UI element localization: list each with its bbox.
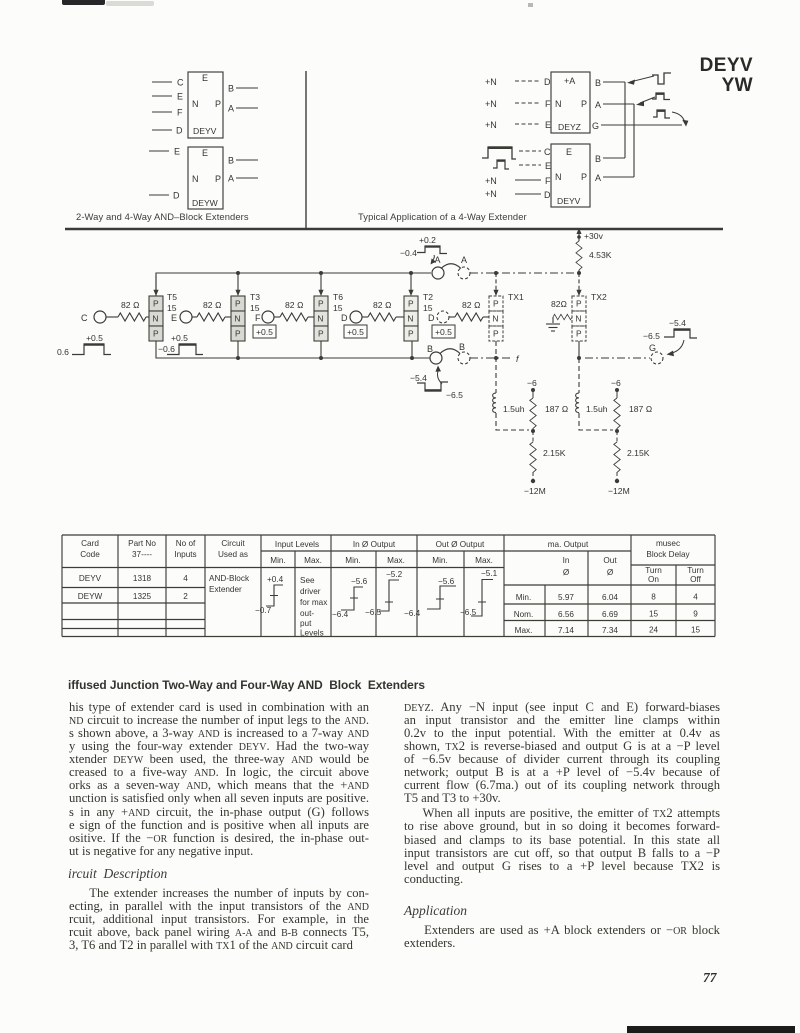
svg-text:6.69: 6.69 <box>602 610 618 619</box>
transistor TX2 <box>572 296 586 341</box>
TX2 collector dashed wire down <box>578 358 580 393</box>
svg-text:Inputs: Inputs <box>174 550 196 559</box>
appl input F (+N) <box>485 176 551 186</box>
DEYZ input D (+N) <box>485 77 551 87</box>
svg-text:82 Ω: 82 Ω <box>373 300 392 310</box>
net B-B vertical wire <box>624 82 626 158</box>
svg-text:15: 15 <box>167 303 177 313</box>
svg-text:N: N <box>192 99 199 109</box>
svg-text:Turn: Turn <box>645 566 662 575</box>
transistor T6 <box>314 296 328 341</box>
DEYV input D <box>152 126 183 136</box>
svg-text:82 Ω: 82 Ω <box>285 300 304 310</box>
out-of-phase output min waveform <box>404 577 456 618</box>
svg-text:P: P <box>153 329 159 339</box>
svg-text:−6.4: −6.4 <box>332 610 349 619</box>
svg-text:musec: musec <box>656 539 680 548</box>
value box +0.5 under F <box>253 325 276 338</box>
svg-text:Used as: Used as <box>218 550 248 559</box>
svg-text:P: P <box>493 299 499 309</box>
resistor R-TX1 82ohm <box>449 300 489 321</box>
svg-text:No of: No of <box>176 539 196 548</box>
svg-text:6.04: 6.04 <box>602 593 618 602</box>
svg-text:P: P <box>318 299 324 309</box>
svg-text:1.5uh: 1.5uh <box>503 404 525 414</box>
svg-text:15: 15 <box>333 303 343 313</box>
block U-DEYZ <box>551 72 590 133</box>
appl DEYV output A wire <box>595 173 634 183</box>
in-phase output min waveform <box>332 577 368 619</box>
svg-text:F: F <box>177 108 183 118</box>
svg-text:82 Ω: 82 Ω <box>203 300 222 310</box>
curved arrow pulse-to-G-line <box>672 112 688 127</box>
svg-text:+0.4: +0.4 <box>267 575 284 584</box>
svg-text:+0.5: +0.5 <box>256 327 273 337</box>
svg-text:−6.5: −6.5 <box>643 331 660 341</box>
svg-text:On: On <box>648 575 659 584</box>
svg-text:+0.5: +0.5 <box>435 327 452 337</box>
svg-text:−5.4: −5.4 <box>669 318 686 328</box>
svg-text:187 Ω: 187 Ω <box>629 404 653 414</box>
svg-text:E: E <box>171 313 177 323</box>
svg-text:E: E <box>177 92 183 102</box>
input D-TX1 node <box>428 311 449 323</box>
curved arrow into node A <box>431 255 436 265</box>
svg-text:Min.: Min. <box>345 556 360 565</box>
svg-text:B: B <box>459 342 465 352</box>
svg-text:−12M: −12M <box>524 486 546 496</box>
svg-text:0.6: 0.6 <box>57 347 69 357</box>
svg-text:−5.1: −5.1 <box>481 569 498 578</box>
right text column <box>404 701 720 887</box>
svg-text:P: P <box>408 299 414 309</box>
pulse at output G <box>653 110 670 118</box>
svg-text:N: N <box>555 99 562 109</box>
svg-text:+A: +A <box>564 76 575 86</box>
svg-text:T6: T6 <box>333 292 343 302</box>
left text column <box>69 701 369 859</box>
svg-text:Block Delay: Block Delay <box>646 550 690 559</box>
svg-text:P: P <box>215 99 221 109</box>
svg-text:37----: 37---- <box>132 550 152 559</box>
DEYV input F <box>152 108 183 118</box>
svg-text:2: 2 <box>183 592 188 601</box>
svg-text:+N: +N <box>485 176 497 186</box>
input C node <box>81 311 106 323</box>
DEYV output B <box>228 84 258 94</box>
svg-text:5.97: 5.97 <box>558 593 574 602</box>
svg-text:A: A <box>228 174 234 184</box>
svg-text:T2: T2 <box>423 292 433 302</box>
transistor T2 <box>404 296 418 341</box>
svg-text:N: N <box>407 314 413 324</box>
svg-text:24: 24 <box>649 626 659 635</box>
svg-text:8: 8 <box>651 593 656 602</box>
svg-text:−0.4: −0.4 <box>400 248 417 258</box>
svg-text:−5.6: −5.6 <box>351 577 368 586</box>
junction T3 bottom <box>236 341 240 360</box>
svg-text:Min.: Min. <box>270 556 285 565</box>
junction T6 bottom <box>319 341 323 360</box>
svg-text:N: N <box>234 314 240 324</box>
svg-text:B: B <box>595 154 601 164</box>
svg-text:C: C <box>544 147 551 157</box>
svg-text:E: E <box>202 73 208 83</box>
svg-text:4: 4 <box>693 593 698 602</box>
TX2 emitter wire to node G <box>577 341 650 360</box>
svg-text:82Ω: 82Ω <box>551 299 568 309</box>
svg-text:DEYW: DEYW <box>192 198 219 208</box>
value box +0.5 under D-TX1 <box>432 325 455 338</box>
svg-text:D: D <box>173 191 180 201</box>
svg-text:E: E <box>174 147 180 157</box>
svg-text:Min.: Min. <box>432 556 447 565</box>
junction T2 top <box>409 271 413 275</box>
svg-text:7.34: 7.34 <box>602 626 618 635</box>
resistor 187ohm (TX1) <box>530 390 569 431</box>
resistor 4.53K <box>576 237 612 273</box>
svg-text:A: A <box>595 100 601 110</box>
svg-text:See: See <box>300 576 315 585</box>
svg-text:P: P <box>408 329 414 339</box>
svg-text:P: P <box>235 299 241 309</box>
section heading <box>68 678 425 692</box>
block DEYW <box>188 147 223 209</box>
DEYZ input E (+N) <box>485 120 551 130</box>
svg-text:F: F <box>545 176 551 186</box>
pulse -5.4 at node B <box>410 373 463 400</box>
svg-text:E: E <box>545 120 551 130</box>
captions under diagrams <box>76 211 249 222</box>
svg-text:Extender: Extender <box>209 585 242 594</box>
resistor 2.15K (TX2) <box>614 431 650 479</box>
divider rule vertical between top diagrams <box>305 71 307 229</box>
inductor L2 1.5uh <box>576 393 608 414</box>
svg-text:15: 15 <box>250 303 260 313</box>
transistor T3 <box>231 296 245 341</box>
svg-text:C: C <box>177 78 184 88</box>
DEYZ output G wire <box>592 121 682 131</box>
pulse at output A <box>652 93 670 100</box>
svg-text:−5.4: −5.4 <box>410 373 427 383</box>
dashed wire B to TX1 bottom <box>470 357 513 359</box>
svg-text:Input Levels: Input Levels <box>275 540 319 549</box>
DEYW input E <box>149 147 180 157</box>
svg-text:DEYV: DEYV <box>557 196 581 206</box>
input levels min waveform <box>255 575 284 615</box>
svg-text:B: B <box>427 344 433 354</box>
arrow into T5 <box>153 275 158 296</box>
arrow into TX2 <box>576 273 581 296</box>
TX1 collector dashed wire down <box>495 341 497 393</box>
node -12M (TX2) <box>608 479 630 496</box>
svg-text:+0.5: +0.5 <box>86 333 103 343</box>
svg-text:−0.6: −0.6 <box>158 344 175 354</box>
svg-text:+N: +N <box>485 120 497 130</box>
heavy horizontal rule under captions <box>65 228 723 230</box>
svg-text:D: D <box>544 190 551 200</box>
arrow into node B <box>627 76 654 85</box>
svg-text:2.15K: 2.15K <box>627 448 650 458</box>
svg-text:TX1: TX1 <box>508 292 524 302</box>
block U-DEYV (application) <box>551 144 590 207</box>
svg-text:187 Ω: 187 Ω <box>545 404 569 414</box>
net f stub <box>516 354 520 364</box>
appl input E <box>519 161 551 171</box>
svg-text:E: E <box>202 148 208 158</box>
svg-text:B: B <box>595 78 601 88</box>
svg-text:+0.5: +0.5 <box>347 327 364 337</box>
svg-text:Max.: Max. <box>475 556 493 565</box>
svg-text:Nom.: Nom. <box>514 610 534 619</box>
top bus wire (A-A net) <box>156 273 431 296</box>
svg-text:−5.2: −5.2 <box>386 570 403 579</box>
svg-text:1325: 1325 <box>133 592 152 601</box>
resistor R-D 82ohm <box>362 300 404 321</box>
svg-text:G: G <box>649 343 656 353</box>
wire L2 to divider <box>579 413 613 430</box>
svg-text:+0.5: +0.5 <box>171 333 188 343</box>
svg-text:B: B <box>228 156 234 166</box>
node B (wired) <box>427 344 442 364</box>
resistor R-TX2 82ohm + ground <box>551 299 573 320</box>
svg-text:Max.: Max. <box>515 626 533 635</box>
node A (wired) <box>432 255 444 279</box>
svg-text:In: In <box>563 556 570 565</box>
svg-text:DEYW: DEYW <box>78 592 103 601</box>
card title <box>700 56 753 95</box>
svg-text:TX2: TX2 <box>591 292 607 302</box>
svg-text:Card: Card <box>81 539 99 548</box>
svg-text:1.5uh: 1.5uh <box>586 404 608 414</box>
svg-text:82 Ω: 82 Ω <box>121 300 140 310</box>
svg-text:Out Ø Output: Out Ø Output <box>436 540 485 549</box>
arrow into T6 <box>318 273 323 296</box>
svg-text:Turn: Turn <box>687 566 704 575</box>
resistor 2.15K (TX1) <box>530 431 566 479</box>
in-phase output max waveform <box>365 570 403 617</box>
svg-text:N: N <box>152 314 158 324</box>
DEYV input C <box>152 78 184 88</box>
node -6 (TX2 divider top) <box>611 378 621 392</box>
node -12M (TX1) <box>524 479 546 496</box>
svg-text:−6.5: −6.5 <box>446 390 463 400</box>
svg-text:−6: −6 <box>527 378 537 388</box>
+30v supply <box>576 228 603 241</box>
DEYZ output A wire <box>595 100 634 110</box>
svg-text:A: A <box>435 255 441 265</box>
block DEYV <box>188 72 223 138</box>
svg-text:DEYZ: DEYZ <box>558 122 581 132</box>
node G (dashed) <box>649 343 663 364</box>
svg-text:Out: Out <box>603 556 617 565</box>
arc between B nodes <box>440 349 460 354</box>
svg-text:T5: T5 <box>167 292 177 302</box>
node A pulse +0.2/-0.4 <box>400 235 447 258</box>
svg-text:82 Ω: 82 Ω <box>462 300 481 310</box>
svg-text:N: N <box>575 314 581 324</box>
pulse at output B <box>652 73 671 84</box>
svg-text:−12M: −12M <box>608 486 630 496</box>
DEYV output A <box>228 104 258 114</box>
svg-text:Max.: Max. <box>387 556 405 565</box>
value box +0.5 under D <box>344 325 367 338</box>
dashed bus A to TX2 <box>470 272 579 274</box>
svg-text:In Ø Output: In Ø Output <box>353 540 396 549</box>
svg-text:P: P <box>153 299 159 309</box>
junction T3 top <box>236 271 240 275</box>
appl input D (+N) <box>485 189 551 200</box>
svg-text:D: D <box>428 313 435 323</box>
svg-text:Off: Off <box>690 575 701 584</box>
svg-text:+N: +N <box>485 189 497 199</box>
svg-text:15: 15 <box>691 626 701 635</box>
svg-text:D: D <box>341 313 348 323</box>
svg-text:4: 4 <box>183 574 188 583</box>
svg-text:A: A <box>228 104 234 114</box>
svg-text:Ø: Ø <box>607 568 614 577</box>
input F node <box>255 311 274 323</box>
svg-text:1318: 1318 <box>133 574 152 583</box>
node -6 (TX1 divider top) <box>527 378 537 392</box>
DEYW input D <box>149 191 180 201</box>
DEYW output B <box>228 156 258 166</box>
svg-text:P: P <box>581 172 587 182</box>
wire L1 to divider <box>496 413 529 430</box>
DEYZ output B wire <box>595 78 625 88</box>
svg-text:G: G <box>592 121 599 131</box>
svg-text:−6: −6 <box>611 378 621 388</box>
resistor R-C 82ohm <box>106 300 149 321</box>
net A-A vertical wire <box>633 104 635 177</box>
svg-text:E: E <box>566 147 572 157</box>
pulse +0.5 at input E <box>167 333 203 355</box>
svg-text:7.14: 7.14 <box>558 626 574 635</box>
DEYZ input F (+N) <box>485 99 551 109</box>
DEYW output A <box>228 174 258 184</box>
input E node <box>171 311 192 323</box>
svg-text:F: F <box>545 99 551 109</box>
junction TX2 top <box>577 271 581 275</box>
junction T6 top <box>319 271 323 275</box>
svg-text:Part No: Part No <box>128 539 156 548</box>
svg-text:DEYV: DEYV <box>79 574 102 583</box>
svg-text:F: F <box>255 313 261 323</box>
torn header smudge <box>62 0 105 5</box>
svg-text:T3: T3 <box>250 292 260 302</box>
svg-text:P: P <box>493 329 499 339</box>
appl input C <box>519 147 551 157</box>
ground symbol <box>546 317 560 331</box>
DEYV input E <box>152 92 183 102</box>
svg-text:Circuit: Circuit <box>221 539 245 548</box>
out-of-phase output max waveform <box>460 569 498 617</box>
junction TX2 divider <box>615 429 619 433</box>
svg-text:Min.: Min. <box>516 593 531 602</box>
svg-text:B: B <box>228 84 234 94</box>
arc between A nodes <box>441 264 461 269</box>
svg-text:Code: Code <box>80 550 100 559</box>
input D node <box>341 311 362 323</box>
svg-text:N: N <box>317 314 323 324</box>
svg-text:15: 15 <box>649 610 659 619</box>
svg-text:P: P <box>576 299 582 309</box>
svg-text:AND-Block: AND-Block <box>209 574 250 583</box>
svg-text:D: D <box>176 126 183 136</box>
junction TX1 bottom <box>494 356 498 360</box>
resistor 187ohm (TX2) <box>614 390 653 431</box>
svg-text:−6.5: −6.5 <box>365 608 382 617</box>
svg-text:N: N <box>555 172 562 182</box>
input E pulse waveform <box>493 160 509 169</box>
svg-text:2.15K: 2.15K <box>543 448 566 458</box>
svg-text:Levels: Levels <box>300 629 324 638</box>
svg-text:put: put <box>300 619 312 628</box>
transistor TX1 <box>489 296 503 341</box>
svg-text:−0.7: −0.7 <box>255 606 272 615</box>
svg-text:4.53K: 4.53K <box>589 250 612 260</box>
svg-text:P: P <box>318 329 324 339</box>
svg-text:Max.: Max. <box>304 556 322 565</box>
node B (plug, dashed) <box>458 342 470 364</box>
curved arrow into node G <box>667 340 685 356</box>
svg-text:15: 15 <box>423 303 433 313</box>
svg-text:E: E <box>545 161 551 171</box>
svg-text:C: C <box>81 313 88 323</box>
appl DEYV output B wire <box>595 154 625 164</box>
svg-text:f: f <box>516 354 520 364</box>
svg-text:Ø: Ø <box>563 568 570 577</box>
transistor T5 <box>149 296 163 341</box>
junction T2 bottom <box>410 341 414 360</box>
junction TX1 divider <box>531 429 535 433</box>
svg-text:DEYV: DEYV <box>193 126 217 136</box>
svg-text:ma. Output: ma. Output <box>548 540 589 549</box>
svg-text:6.56: 6.56 <box>558 610 574 619</box>
resistor R-F 82ohm <box>274 300 314 321</box>
resistor R-E 82ohm <box>192 300 231 321</box>
svg-text:9: 9 <box>693 610 698 619</box>
arrow into TX1 <box>493 273 498 296</box>
svg-text:−6.5: −6.5 <box>460 608 477 617</box>
curved arrow into node B <box>435 366 442 385</box>
pulse -5.4 at node G <box>643 318 697 341</box>
svg-text:out-: out- <box>300 609 314 618</box>
svg-text:P: P <box>576 329 582 339</box>
svg-text:A: A <box>461 255 467 265</box>
svg-text:+N: +N <box>485 99 497 109</box>
svg-text:+N: +N <box>485 77 497 87</box>
svg-text:driver: driver <box>300 587 321 596</box>
svg-text:D: D <box>544 77 551 87</box>
arrow into node A <box>636 97 655 106</box>
arrow into T2 <box>408 273 413 296</box>
arrow into T3 <box>235 273 240 296</box>
svg-text:for max: for max <box>300 598 327 607</box>
svg-text:A: A <box>595 173 601 183</box>
inductor L1 1.5uh <box>493 393 525 414</box>
bottom bus wire (B-B net) <box>156 341 430 358</box>
svg-text:−6.4: −6.4 <box>404 609 421 618</box>
junction TX1 top <box>494 271 498 275</box>
svg-text:N: N <box>492 314 498 324</box>
svg-text:−5.6: −5.6 <box>438 577 455 586</box>
pulse +0.5 at input C <box>57 333 111 357</box>
input C pulse waveform <box>482 147 516 159</box>
svg-text:P: P <box>215 174 221 184</box>
label -0.6 at T5 emitter <box>158 344 175 354</box>
svg-text:P: P <box>235 329 241 339</box>
